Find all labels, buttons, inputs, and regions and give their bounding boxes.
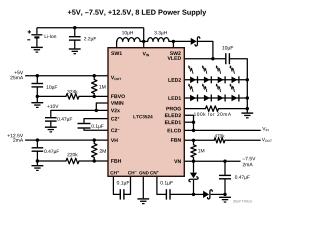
label 0.47uF +12.5V [44,150,59,154]
pin label ELCD [168,129,181,133]
junction ELED1 tie [192,121,195,124]
wire PROG to resistor [184,108,205,110]
label 0.47uF +10V [57,117,72,121]
pin label GND [139,171,149,174]
LED D5 row2 [190,95,197,102]
label 10uF VLED [222,46,233,51]
junction VIN node [142,40,145,43]
label 324k [67,90,77,94]
pin label V2x [111,109,120,113]
label 25mA [10,76,23,80]
label 220k [67,153,77,157]
diode schottky bottom [203,190,212,199]
label 0.1uF CN [160,181,172,186]
wire FBN to resistor [184,139,214,141]
LED D4 row1 [232,76,239,83]
label 470k [215,134,225,137]
junction VMIN on V2x line [95,109,98,112]
pin label VIN [143,52,149,56]
label 0.47uF VN [235,175,250,179]
wire LED1 string row [184,97,247,99]
wire GND stub [142,176,144,198]
wire FBVO line left [37,95,66,97]
resistor 100k [206,106,219,112]
LED D7 row2 [218,95,225,102]
label +10V [47,105,58,108]
wire ELED2 [184,115,193,130]
label VIN net [262,127,268,131]
wire CH+ stub [113,176,120,194]
wire ELED1 [184,121,193,123]
junction ELCD tie [192,129,195,132]
ground IC GND pin [137,199,149,204]
ground 0.47uF +10V [45,127,57,132]
pin label ELED1 [165,121,181,125]
LED D4 light arrows [229,65,236,74]
resistor 324k [66,94,79,100]
wire +5V rail VOUT [25,75,108,77]
capacitor 0.1uF C2 [78,119,109,131]
pin label C2- [111,129,119,133]
junction VN diode [192,160,195,163]
resistor 470k [214,138,225,143]
wire LED2 string row [184,79,247,81]
LED D2 row1 [204,76,211,83]
wire 470k to VOUT [225,139,261,141]
ground battery [31,47,43,52]
label -7.5V [242,157,255,160]
wire top rail from battery to VIN [37,27,144,29]
junction 2M top [93,138,96,141]
label 2mA VN [243,163,253,166]
pin label CN+ [150,171,159,175]
wire +12.5V rail VH [25,139,108,141]
ground 10uF [31,96,43,107]
label part number [233,200,252,202]
capacitor 0.1uF CH [120,189,124,199]
LED D1 light arrows [187,65,194,74]
label 0.1uF CH [117,181,129,186]
LED D3 light arrows [215,65,222,74]
wire CN cap to diode node [170,193,194,195]
pin label SW2 [170,51,181,55]
label +12.5V [7,134,23,138]
wire 324k to FBVO pin [79,95,108,97]
label 2M [100,149,106,152]
wire right rail row2 to PROG node [246,98,248,109]
wire schottky to ground node [211,193,225,195]
junction 10uF ground FBVO [36,95,39,98]
junction 0.47uF ground FBH [36,159,39,162]
wire SW1 stub [116,41,118,47]
IC name LTC3524 [133,115,152,118]
resistor 2M [92,140,97,161]
resistor 1M +5V [92,76,97,97]
pin label CH+ [110,171,119,175]
capacitor 0.47uF +12.5V [32,140,44,161]
ground 0.47uF +12.5V [32,161,44,170]
LED D1 row1 [190,76,197,83]
pin label FBH [111,159,121,163]
pin label PROG [166,107,181,111]
junction 2.2uF on top rail [73,26,76,29]
LED D3 row1 [218,76,225,83]
wire V2x +10V line [51,110,108,117]
pin label LED2 [168,78,181,82]
label 1M FBN [198,149,204,152]
capacitor 2.2uF [69,28,81,49]
LED D6 row2 [204,95,211,102]
pin label FBN [171,138,181,142]
LED D2 light arrows [201,65,208,74]
wire VIN node to coil2 [144,40,148,42]
capacitor 10uF VLED [226,53,230,64]
LED D5 light arrows [187,83,194,92]
junction VN cap [223,160,226,163]
junction 1M bottom [93,95,96,98]
wire SW2 node to boost diode [173,40,191,42]
pin label VLED [167,56,180,60]
pin label ELED2 [165,114,181,118]
junction 1M top [93,74,96,77]
junction diode bottom [192,193,195,196]
wire SW2 stub [172,41,174,47]
junction 0.47uF +12.5V [36,138,39,141]
label 100k for 20mA [194,112,231,116]
ground VN [219,197,231,202]
label 1M +5V [99,85,105,88]
wire VMIN [96,103,108,110]
LED D8 row2 [232,95,239,102]
op-amp U1 LTC3524 body [108,48,184,177]
capacitor 0.47uF +10V [45,118,57,127]
pin label SW1 [111,51,122,55]
capacitor 0.1uF CN [166,189,170,199]
wire 10uF to right rail [229,59,247,80]
wire VLED rail [184,58,226,60]
title [68,9,206,16]
wire coil2 to SW2 node [169,40,174,42]
ground 2.2uF [69,49,81,54]
junction row2 right rail [246,96,249,99]
wire 220k to FBH pin [79,160,108,162]
battery Li-Ion [27,28,42,47]
junction SW2 node [172,40,175,43]
inductor 10uH [117,38,140,42]
wire CH- stub [124,176,131,194]
wire FBH line left [37,160,66,162]
junction VN ground node [223,193,226,196]
wire CN+ stub [157,176,167,194]
LED D6 light arrows [201,83,208,92]
resistor 220k [66,158,79,164]
junction 2M bottom [93,159,96,162]
pin label VN [174,160,181,164]
pin label LED1 [168,96,181,100]
wire ELCD to VIN [184,129,260,131]
label 10uF +5V [47,85,58,89]
junction VLED rail [211,57,214,60]
pin label VOUT [111,76,121,80]
LED D7 light arrows [215,83,222,92]
inductor 3.3uH [148,38,169,42]
label VOUT net [262,138,272,142]
capacitor 10uF +5V [32,76,44,97]
junction FBN 1M [192,139,195,142]
LED D8 light arrows [229,83,236,92]
wire VIN drop [143,28,145,48]
wire resistor to rail node [219,108,248,110]
pin label VH [111,138,118,142]
junction 10uF +5V [36,74,39,77]
pin label C2+ [111,117,119,121]
ground LED rail [241,109,253,118]
junction row1 right rail [246,78,249,81]
label 10uH [122,31,133,35]
wire bottom to schottky [194,193,204,195]
label Li-Ion [45,34,56,38]
wire VN [184,160,240,162]
label +5V [14,71,23,74]
label 2mA VH [13,138,23,141]
pin label CH- [128,171,137,174]
diode schottky VN vertical [189,161,198,194]
wire right rail row1 to row2 [246,80,248,98]
pin label FBVO [111,95,125,99]
label 0.1uF C2 [91,124,103,128]
label 3.3uH [154,31,166,35]
diode schottky boost [191,37,200,46]
resistor 1M FBN [191,140,196,161]
wire boost diode to VLED rail [198,41,213,58]
capacitor 0.47uF VN [219,161,231,194]
wire coil1 to VIN node [140,40,144,42]
junction PROG ground node [246,107,249,110]
label 2.2uF [84,37,96,41]
pin label VMIN [111,101,123,105]
